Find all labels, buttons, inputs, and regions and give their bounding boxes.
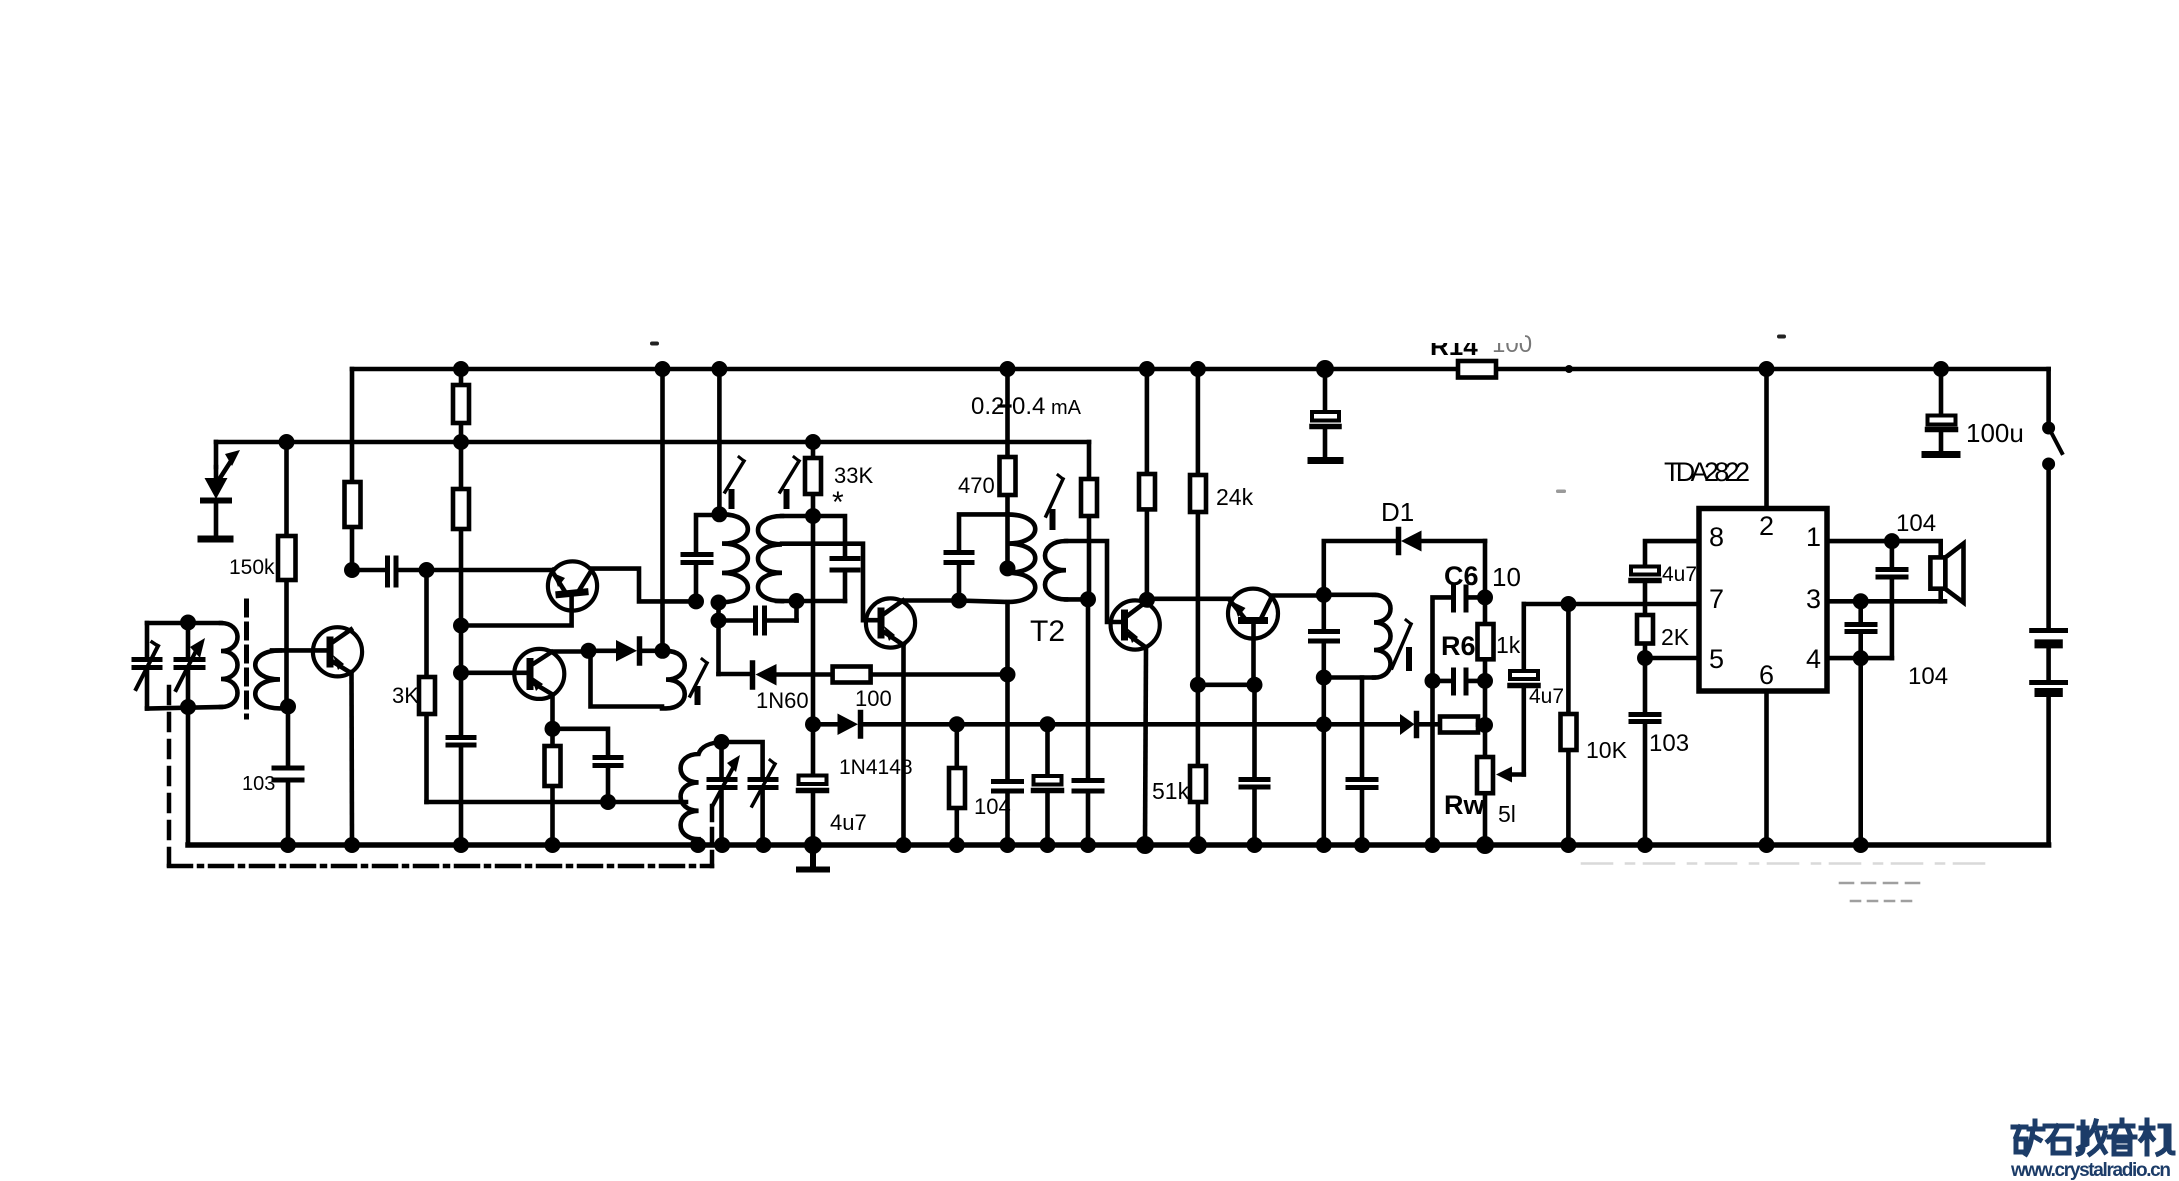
svg-text:4u7: 4u7 (1529, 685, 1564, 708)
wire: bias divider branch x=461 (459, 369, 464, 845)
inductor oscillator tank coil (681, 742, 722, 845)
wire: antenna tank bottom (147, 707, 221, 709)
transistor Q3 (1st IF amp, PNP) (866, 598, 915, 647)
node: antenna tank top junction (180, 615, 196, 631)
node: oscillator loop left junction (581, 643, 597, 659)
variable capacitor osc C trim plates (750, 780, 776, 788)
transistor Q2b (oscillator, PNP) (514, 649, 564, 699)
node: 24k-51k junction (1190, 677, 1206, 693)
wire: emitter resistor branch x=957 (954, 724, 959, 845)
watermark 矿石收音机 (drawn as paths) (2013, 1120, 2173, 1154)
label 100 (855, 686, 892, 711)
variable capacitor osc C trim arrow (752, 760, 775, 806)
resistor Q4 load (1139, 474, 1155, 509)
LED D (tuning indicator) (203, 467, 229, 536)
wire: ground rail (bottom) (188, 842, 2049, 848)
label asterisk (832, 486, 844, 519)
antenna tuning gang frame: var cap C1a branch (145, 623, 150, 709)
faint scan artifact lines (1582, 864, 1986, 902)
node: x=957 on AGC row (949, 716, 965, 732)
node: detector output node (1477, 589, 1493, 605)
svg-text:4u7: 4u7 (1662, 563, 1697, 586)
speck left of TDA label (1556, 490, 1566, 494)
ground symbol (799, 845, 827, 870)
battery B1 (2032, 469, 2066, 845)
capacitor 4u7 (AGC filter, electrolytic) (799, 724, 827, 845)
wire: T1 secondary tap to Q3 base (782, 544, 877, 621)
node: 470 feed on top rail (1000, 361, 1016, 377)
capacitor 103 (emitter bypass, left) (274, 768, 302, 780)
resistor T2 secondary feed (1081, 479, 1097, 516)
variable capacitor C1b plates (176, 660, 203, 668)
label dash of 0.2-0.4 (999, 404, 1010, 407)
label 51 (Rw value, partly hidden) (1498, 801, 1516, 827)
node: T1 primary top junction (711, 506, 727, 522)
label 51k (1152, 778, 1190, 804)
node: output junction pin1 (1884, 533, 1900, 549)
resistor Q1 collector load (345, 482, 361, 527)
node: 2K bottom junction (1637, 650, 1653, 666)
wire: T2 primary feed (470) from top rail (1005, 369, 1010, 568)
svg-text:1N60: 1N60 (756, 688, 809, 713)
node: junction coupling cap / 3K branch (419, 562, 435, 578)
node: T2 primary center tap (1000, 560, 1016, 576)
svg-text:D1: D1 (1381, 497, 1414, 527)
label 1N4148 (839, 756, 913, 779)
wire: pin 4 to ground rail (1827, 658, 1892, 845)
wire: pin8 feedback branch (1645, 541, 1699, 845)
svg-text:3: 3 (1806, 584, 1821, 614)
resistor R2 (top rail to second rail) (453, 385, 469, 423)
variable capacitor C1b arrow (176, 638, 205, 690)
wire: detector tank cap branch (1322, 595, 1327, 678)
label 0.4mA (current annotation) (1012, 393, 1082, 420)
wire: 150k branch (287, 442, 289, 845)
svg-text:7: 7 (1709, 584, 1724, 614)
node: antenna tank bottom junction (180, 699, 196, 715)
wire: antenna tank top (147, 621, 221, 626)
label 0.2 (current annotation) (971, 393, 1004, 420)
node: ground rail junctions (280, 836, 1869, 854)
wire: 33K line down to AGC row (811, 516, 816, 724)
capacitor below R6 (1433, 670, 1486, 693)
svg-text:3K: 3K (392, 683, 419, 708)
diode D1 (1399, 530, 1486, 553)
speck above top rail (left) (650, 342, 659, 346)
resistor 470 (1000, 457, 1016, 495)
resistor (AGC divider x=957) (949, 768, 965, 808)
wire: Q4 collector to Q5 base (1147, 596, 1231, 601)
resistor 3K (419, 677, 435, 714)
wire: to Rw top (1478, 722, 1485, 727)
node: tank return on AGC row (1316, 716, 1332, 732)
diode detector output (to Rw) (1400, 714, 1440, 736)
svg-text:T2: T2 (1030, 615, 1065, 648)
dashed gang linkage: bottom dash-dot (169, 864, 712, 869)
wire: D1 branch from tank top (1324, 541, 1396, 595)
wire: pin 2 to top rail (1764, 369, 1769, 509)
chassis bar under decoupling cap (1311, 457, 1340, 464)
node: AGC junction at x=813 (805, 716, 821, 732)
label 103 (right) (1649, 730, 1689, 757)
label 104 (bottom) (1908, 663, 1948, 690)
capacitor bypass x=1362 (1348, 780, 1376, 788)
svg-text:10: 10 (1492, 562, 1521, 592)
wire: coupling cap riser to T1 secondary bottom (794, 601, 799, 621)
node: 100 resistor to T2 line junction (1000, 667, 1016, 683)
wire: Q2b emitter branch (550, 695, 555, 729)
node: Q2 base line junction (453, 618, 469, 634)
wire: junction to Q5 emitter (1198, 682, 1255, 687)
inductor T2 secondary winding (1045, 541, 1066, 599)
wire: T1 secondary top row (782, 516, 845, 601)
capacitor bypass x=1047 (1034, 724, 1062, 845)
wire: 3K branch vertical (424, 570, 429, 802)
trimmer arrow (detector coil) (1392, 620, 1411, 668)
wire: Q2 collector step to T1 bottom (592, 569, 696, 602)
node: divider top on supply rail (453, 361, 469, 377)
resistor 2K (1637, 615, 1653, 644)
wire: T2 secondary top to Q4 base (1066, 541, 1121, 622)
node: T1 primary bottom left junction (688, 593, 704, 609)
wire: T2 secondary bottom (1066, 597, 1088, 602)
trimmer arrow (T1 secondary) (780, 457, 799, 506)
wire: D1 output down to C6/R6 node (1483, 541, 1488, 597)
capacitor T1 secondary tank (832, 559, 858, 571)
node: oscillator loop right junction (655, 643, 671, 659)
wire: Q5 collector to detector tank (1271, 593, 1324, 598)
wire: pin 6 to ground rail (1764, 691, 1769, 845)
svg-text:1k: 1k (1496, 632, 1521, 658)
wire: coupling row Q1 collector to Q2 emitter (352, 568, 553, 573)
node: T1 primary bottom right junction (711, 595, 727, 611)
wire: antenna tank bottom to ground rail (186, 707, 191, 845)
potentiometer Rw (1477, 757, 1493, 793)
trimmer arrow (feedback coil) (690, 659, 707, 702)
label 4u7 (AGC) (830, 810, 867, 835)
node: supply decoupling cap junction on top rail (1316, 360, 1334, 378)
node: pin3 junction (1853, 593, 1869, 609)
dashed gang linkage: left vertical (167, 687, 172, 866)
音 (2109, 1120, 2135, 1154)
variable capacitor osc C main arrow (713, 755, 740, 805)
wire: var cap C1b branch (186, 623, 191, 707)
svg-text:1N4148: 1N4148 (839, 756, 913, 779)
schematic drawing container (134, 326, 2173, 1181)
label R14 100 (partially whited out) (1425, 326, 1532, 361)
svg-text:2: 2 (1759, 511, 1774, 541)
resistor R6 1k (1478, 597, 1494, 681)
capacitor between pin3 and pin4 (1847, 601, 1875, 658)
label R6 (1441, 631, 1476, 661)
pin 8 label (1709, 522, 1724, 552)
resistor R14 (inline in top rail) (1458, 361, 1496, 378)
wire: oscillator tank top row (722, 742, 763, 845)
svg-text:5l: 5l (1498, 801, 1516, 827)
label Rw (1444, 790, 1485, 820)
capacitor T2 primary tank (946, 553, 972, 563)
resistor 150k (278, 536, 296, 580)
svg-text:4: 4 (1806, 644, 1821, 674)
chassis bar under LED (201, 536, 230, 543)
capacitor 100u (supply filter, electrolytic) (1925, 369, 1957, 455)
node: antenna coil secondary bottom junction (280, 699, 296, 715)
svg-text:104: 104 (1908, 663, 1948, 690)
wire: Q5 base node to cap and rail (1252, 685, 1257, 845)
wire: tank bottom bypass branch x=1362 (1360, 678, 1365, 846)
label 10 (C6 value, partly hidden) (1492, 562, 1521, 592)
inductor oscillator feedback winding (662, 651, 685, 709)
resistor Q2b emitter (545, 746, 561, 786)
capacitor detector tank (1311, 632, 1338, 642)
node: x=1047 on AGC row (1040, 716, 1056, 732)
label 104 (top) (1896, 510, 1936, 537)
svg-text:0.4: 0.4 (1012, 393, 1045, 420)
wire: second rail right end into T2 secondary resistor (1087, 442, 1092, 599)
svg-text:*: * (832, 486, 844, 519)
transistor Q4 (2nd IF amp, PNP) (1111, 600, 1160, 649)
node: Q4 collector junction (1139, 592, 1155, 608)
svg-text:5: 5 (1709, 644, 1724, 674)
wire: pin 3 output (1827, 599, 1945, 604)
svg-text:2K: 2K (1661, 624, 1690, 650)
node: pin2 on top rail (1759, 361, 1775, 377)
wire: feed riser x=663 from top rail (660, 369, 665, 651)
label T2 (1030, 615, 1065, 648)
label 3K (392, 683, 419, 708)
capacitor 103 (pin8 branch) (1631, 715, 1659, 722)
wire: 2K junction to pin 5 (1645, 656, 1699, 661)
node: 33K bottom junction (805, 508, 821, 524)
svg-text:10K: 10K (1586, 737, 1628, 763)
pin 7 label (1709, 584, 1724, 614)
node: Q5 base bias junction (1247, 677, 1263, 693)
node: Q4 collector feed on top rail (1139, 361, 1155, 377)
wire: Q2 emitter from coupling row (552, 570, 553, 571)
label 1N60 (756, 688, 809, 713)
capacitor Q2b emitter bypass (595, 758, 621, 766)
capacitor 104 (output zobel top) (1878, 541, 1906, 658)
capacitor supply decoupling (electrolytic, x=1325) (1312, 369, 1339, 457)
wire: Q2b base lead (461, 670, 528, 675)
wire: tank bottom to AGC row and ground (1322, 678, 1327, 846)
capacitor C6 (1433, 587, 1486, 845)
capacitor bypass (x=461) (448, 738, 474, 746)
wire: Q1 base lead (272, 648, 327, 653)
机 (2141, 1120, 2173, 1154)
transistor Q1 (converter) (313, 627, 362, 676)
speck on top rail (1565, 365, 1573, 373)
resistor 100 (horizontal) (833, 667, 871, 683)
capacitor 4u7 (volume coupling, electrolytic) (1510, 604, 1538, 775)
wire: Q2 base row (461, 596, 572, 626)
wire: R6 node to Rw node (1483, 681, 1488, 845)
potentiometer wiper arrow (1496, 767, 1524, 783)
svg-text:33K: 33K (834, 463, 873, 488)
wire: Q5 base stub down (1251, 622, 1256, 685)
label 150k (229, 556, 275, 579)
speaker (1930, 544, 1963, 603)
wire: Q1 emitter to ground rail (349, 672, 354, 845)
node: junction 150k top on second rail (279, 434, 295, 450)
pin 1 label (1806, 522, 1821, 552)
svg-text:Rw: Rw (1444, 790, 1485, 820)
capacitor T1 primary tank (683, 555, 711, 563)
diode 1N4148 (813, 713, 861, 737)
label 470 (958, 473, 995, 498)
node: Rw top junction (1477, 717, 1493, 733)
label 4u7 (pin8) (1662, 563, 1697, 586)
svg-text:104: 104 (1896, 510, 1936, 537)
wire: 3K to oscillator tank tap (427, 800, 687, 805)
node: 10K junction (1560, 596, 1576, 612)
capacitor coupling C2 (388, 558, 397, 585)
svg-text:TDA2822: TDA2822 (1664, 457, 1750, 487)
svg-text:www.crystalradio.cn: www.crystalradio.cn (2010, 1160, 2171, 1181)
node: divider junction on second rail (453, 434, 469, 450)
svg-text:6: 6 (1759, 660, 1774, 690)
石 (2045, 1126, 2072, 1153)
label 104 (974, 794, 1011, 819)
label D1 (1381, 497, 1414, 527)
op-amp U1 TDA2822 package (1699, 509, 1827, 692)
pin 4 label (1806, 644, 1821, 674)
node: cap2 left junction (1425, 673, 1441, 689)
svg-text:8: 8 (1709, 522, 1724, 552)
watermark www.crystalradio.cn (2010, 1160, 2171, 1181)
svg-text:24k: 24k (1216, 484, 1254, 510)
wire: T2 primary top to tank cap (959, 514, 1008, 600)
pin 2 label (1759, 511, 1774, 541)
trimmer arrow (T2) (1046, 475, 1063, 527)
svg-text:470: 470 (958, 473, 995, 498)
wire: LED feed from second rail (214, 442, 219, 467)
wire: 1N60 row (719, 672, 1008, 677)
node: T1 secondary bottom junction (789, 593, 805, 609)
node: coupling cap left junction (711, 613, 727, 629)
svg-text:103: 103 (1649, 730, 1689, 757)
inductor detector coil (1374, 595, 1391, 678)
trimmer arrow (T1 primary) (725, 457, 744, 506)
inductor T2 primary winding (1008, 514, 1036, 674)
svg-text:103: 103 (242, 773, 275, 795)
diode oscillator (feedback) (589, 639, 663, 663)
wire: T1 primary cap branch (696, 515, 719, 601)
capacitor bypass x=1088 (1074, 781, 1102, 792)
node: T1 riser on top rail (711, 361, 727, 377)
label TDA2822 (1664, 457, 1750, 487)
resistor 24k (1190, 475, 1206, 512)
capacitor 104 (T2 line bypass) (994, 675, 1022, 846)
pin 3 label (1806, 584, 1821, 614)
node: 33K top on second rail (805, 434, 821, 450)
wire: 24k / 51k branch (1196, 369, 1201, 845)
node: Q2b emitter junction (545, 721, 561, 737)
label 103 (left) (242, 773, 275, 795)
wire: Q1 collector riser to top rail (350, 369, 355, 570)
svg-text:4u7: 4u7 (830, 810, 867, 835)
wire: Q4 emitter to ground rail (1145, 648, 1146, 846)
svg-text:R6: R6 (1441, 631, 1476, 661)
wire: second rail (B+ line) (216, 440, 1089, 445)
variable capacitor C1a plates (134, 660, 160, 668)
node: detector tank top junction (1316, 587, 1332, 603)
svg-text:100: 100 (855, 686, 892, 711)
node: Q1 collector / coupling cap junction (344, 562, 360, 578)
svg-text:100u: 100u (1966, 418, 2024, 448)
variable capacitor osc C main plates (709, 780, 735, 788)
switch S1 (2043, 369, 2062, 470)
node: emitter cap to 3K wire junction (600, 794, 616, 810)
wire: audio line to pin 7 (1524, 602, 1699, 607)
node: Q2b base junction (453, 665, 469, 681)
label 100u (1966, 418, 2024, 448)
node: pin4 junction (1853, 650, 1869, 666)
wire: emitter junction to resistor and cap (553, 729, 609, 845)
oscillator tank: top junction node (714, 734, 730, 750)
dashed gang linkage: right vertical (710, 800, 715, 866)
wire: AGC row to detector (862, 722, 1400, 727)
pin 5 label (1709, 644, 1724, 674)
node: T2 primary bottom junction (951, 593, 967, 609)
wire: pin 1 output (1827, 541, 1941, 557)
label 24k (1216, 484, 1254, 510)
capacitor 4u7 (pin8 feedback, electrolytic) (1631, 567, 1659, 581)
resistor 33K (805, 442, 821, 516)
inductor T1 primary winding (719, 514, 748, 602)
inductor T1 secondary winding (758, 516, 782, 601)
svg-text:1: 1 (1806, 522, 1821, 552)
capacitor Q5 emitter bypass (1241, 780, 1268, 788)
inductor L1 secondary winding (255, 650, 288, 708)
resistor horizontal (detector series) (1440, 717, 1478, 733)
wire: feedback loop bottom return (591, 651, 663, 707)
wire: Q2b collector to oscillator loop (552, 649, 589, 654)
svg-text:150k: 150k (229, 556, 275, 579)
wire: top supply rail (352, 367, 2049, 372)
wire: T1 bottom to 1N60 row (716, 603, 721, 675)
capacitor interstage coupling (T1) (719, 608, 797, 633)
node: detector tank bottom junction (1316, 670, 1332, 686)
label C6 (1444, 561, 1479, 591)
pin 6 label (1759, 660, 1774, 690)
wire: T2 primary bottom to spine (959, 601, 1008, 603)
wire: 10K branch (1566, 604, 1571, 845)
node: x=663 riser on top rail (655, 361, 671, 377)
label 2K (1661, 624, 1690, 650)
resistor 10K (1561, 714, 1577, 750)
label 33K (834, 463, 873, 488)
variable capacitor C1a arrow (136, 642, 158, 689)
diode 1N60 (753, 663, 777, 687)
resistor R3 (second rail down) (453, 489, 469, 529)
node: 100u on top rail (1933, 361, 1949, 377)
node: T2 secondary bottom junction (1080, 591, 1096, 607)
node: R6 bottom junction (1477, 673, 1493, 689)
node: 24k top on rail (1190, 361, 1206, 377)
label 10K (1586, 737, 1628, 763)
transistor Q2 (oscillator buffer, PNP) (548, 561, 597, 610)
svg-text:C6: C6 (1444, 561, 1479, 591)
wire: Q4 collector riser with load resistor (1145, 369, 1150, 600)
wire: detector tank top (1324, 592, 1374, 597)
wire: T2 secondary bottom bypass branch (1086, 599, 1091, 845)
wire: T1 left riser from top rail (717, 369, 722, 514)
收 (2078, 1121, 2105, 1154)
transistor Q5 (detector driver, PNP) (1228, 589, 1278, 639)
speck above TDA label (1777, 335, 1786, 339)
inductor L1 antenna coil primary (221, 623, 238, 707)
